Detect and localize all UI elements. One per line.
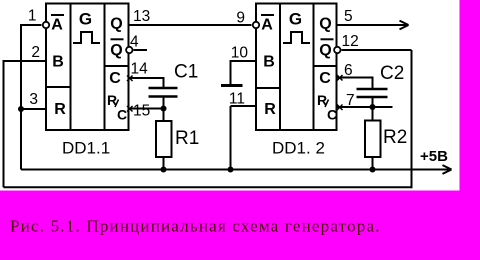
- svg-text:R2: R2: [383, 127, 407, 148]
- inversion bubble pin1: [43, 22, 49, 28]
- tick pin7: [337, 105, 343, 111]
- svg-text:Q: Q: [319, 42, 331, 59]
- wire vertical pin2 feedback left: [3, 60, 5, 187]
- svg-text:Q: Q: [110, 42, 122, 59]
- capacitor C1 top plate: [149, 87, 178, 90]
- ground bar pin10: [221, 84, 243, 87]
- node pin7/C2/R2 junction: [370, 104, 376, 110]
- svg-text:R1: R1: [175, 128, 199, 149]
- DD1.1 G pulse symbol: [73, 32, 100, 43]
- wire vertical pin1-pin3-rail: [20, 24, 22, 170]
- DD1.1 A overbar: [51, 14, 64, 16]
- svg-text:3: 3: [29, 91, 38, 108]
- wire pin11 down to rail1: [230, 106, 232, 171]
- DD1.2 Q overbar: [321, 38, 334, 40]
- svg-text:R: R: [317, 92, 327, 108]
- IC DD1.1: monostable multivibrator box: [46, 4, 129, 131]
- svg-text:12: 12: [342, 33, 359, 50]
- capacitor C1 bottom plate: [149, 95, 178, 98]
- wire pin4 stub: [134, 49, 148, 51]
- svg-text:13: 13: [133, 8, 150, 25]
- wire pin1 horizontal: [21, 24, 42, 26]
- svg-text:14: 14: [131, 61, 149, 78]
- DD1.1 column divider right: [104, 4, 106, 131]
- wire C1 bottom lead: [163, 97, 165, 110]
- svg-text:C1: C1: [174, 62, 198, 83]
- DD1.1 Q/C divider: [105, 65, 129, 67]
- wire pin13 to pin9: [129, 24, 252, 26]
- svg-text:A: A: [261, 17, 273, 34]
- svg-text:A: A: [51, 17, 63, 34]
- node pin3 junction: [18, 106, 24, 112]
- svg-text:DD1.1: DD1.1: [62, 139, 110, 158]
- resistor R1: [156, 121, 172, 157]
- wire pin11 horizontal: [231, 105, 257, 107]
- DD1.1 B/R divider: [46, 86, 71, 88]
- svg-text:Рис. 5.1. Принципиальная схема: Рис. 5.1. Принципиальная схема генератор…: [10, 217, 381, 236]
- svg-text:4: 4: [130, 34, 139, 51]
- svg-text:6: 6: [344, 62, 353, 79]
- magenta right margin: [460, 0, 480, 260]
- slash R/C DD1.1: [115, 100, 119, 108]
- svg-text:Q: Q: [110, 16, 122, 33]
- wire rail1 +5V bus: [21, 169, 449, 171]
- svg-text:B: B: [52, 54, 64, 71]
- inversion bubble pin9: [253, 22, 259, 28]
- svg-text:2: 2: [31, 44, 40, 61]
- svg-text:10: 10: [231, 45, 249, 62]
- svg-text:G: G: [79, 10, 92, 29]
- DD1.1 column divider left: [70, 4, 72, 131]
- DD1.2 column divider right: [313, 4, 315, 131]
- DD1.2 A overbar: [261, 14, 274, 16]
- magenta bottom margin: [0, 191, 480, 260]
- svg-text:5: 5: [344, 8, 353, 25]
- wire pin6 down to C2: [372, 77, 374, 90]
- svg-text:R: R: [107, 92, 117, 108]
- svg-text:+5В: +5В: [420, 148, 448, 165]
- svg-text:C2: C2: [380, 63, 404, 84]
- wire pin10 horizontal: [231, 60, 257, 62]
- svg-text:1: 1: [28, 8, 37, 25]
- wire pin14 down to C1: [163, 77, 165, 88]
- wire R2 top lead: [372, 107, 374, 121]
- DD1.2 B/R divider: [256, 87, 280, 89]
- wire vertical pin12 feedback right: [411, 50, 413, 188]
- IC DD1.2: monostable multivibrator box: [256, 4, 337, 131]
- node pin11 on rail1: [228, 167, 234, 173]
- svg-text:15: 15: [133, 103, 150, 120]
- tick pin15: [127, 106, 133, 112]
- svg-text:C: C: [117, 107, 127, 123]
- arrow pin5: [400, 21, 409, 30]
- wire pin3 horizontal: [21, 108, 46, 110]
- tick pin6: [337, 75, 343, 81]
- svg-text:R: R: [264, 101, 276, 118]
- resistor R2: [365, 121, 381, 158]
- wire pin5 with arrow: [337, 24, 407, 26]
- wire pin6 horizontal: [337, 77, 373, 79]
- node R2 on rail1: [370, 167, 376, 173]
- wire R1 top lead: [163, 109, 165, 122]
- svg-text:7: 7: [346, 92, 355, 109]
- svg-text:R: R: [54, 101, 66, 118]
- node R1 on rail1: [161, 167, 167, 173]
- wire pin15 horizontal: [129, 108, 167, 110]
- wire pin14 horizontal: [129, 77, 164, 79]
- inversion bubble pin12: [334, 47, 340, 53]
- node pin15/C1/R1 junction: [161, 106, 167, 112]
- wire R1 bottom lead: [163, 157, 165, 171]
- DD1.1 Q overbar: [111, 38, 124, 40]
- wire pin7 horizontal: [337, 106, 393, 108]
- capacitor C2 bottom plate: [357, 96, 388, 99]
- capacitor C2 top plate: [357, 88, 388, 91]
- svg-text:DD1. 2: DD1. 2: [272, 139, 325, 158]
- wire rail2 feedback bottom: [4, 186, 412, 188]
- svg-text:Q: Q: [319, 16, 331, 33]
- DD1.2 column divider left: [279, 4, 281, 131]
- wire C2 bottom lead: [372, 97, 374, 108]
- wire pin12 horizontal: [342, 49, 412, 51]
- svg-text:11: 11: [229, 91, 245, 108]
- wire pin2 horizontal: [4, 60, 47, 62]
- arrow +5V end of rail1: [443, 165, 452, 174]
- slash R/C DD1.2: [325, 100, 329, 108]
- svg-text:G: G: [289, 10, 302, 29]
- DD1.2 Q/C divider: [314, 65, 337, 67]
- svg-text:C: C: [319, 70, 331, 87]
- tick pin14: [127, 76, 133, 82]
- wire R2 bottom lead: [372, 157, 374, 171]
- svg-text:B: B: [263, 54, 275, 71]
- inversion bubble pin4: [126, 47, 132, 53]
- svg-text:C: C: [327, 107, 337, 123]
- DD1.2 G pulse symbol: [283, 32, 310, 43]
- svg-text:C: C: [109, 70, 121, 87]
- svg-text:9: 9: [236, 10, 245, 27]
- wire pin10 down: [230, 60, 232, 84]
